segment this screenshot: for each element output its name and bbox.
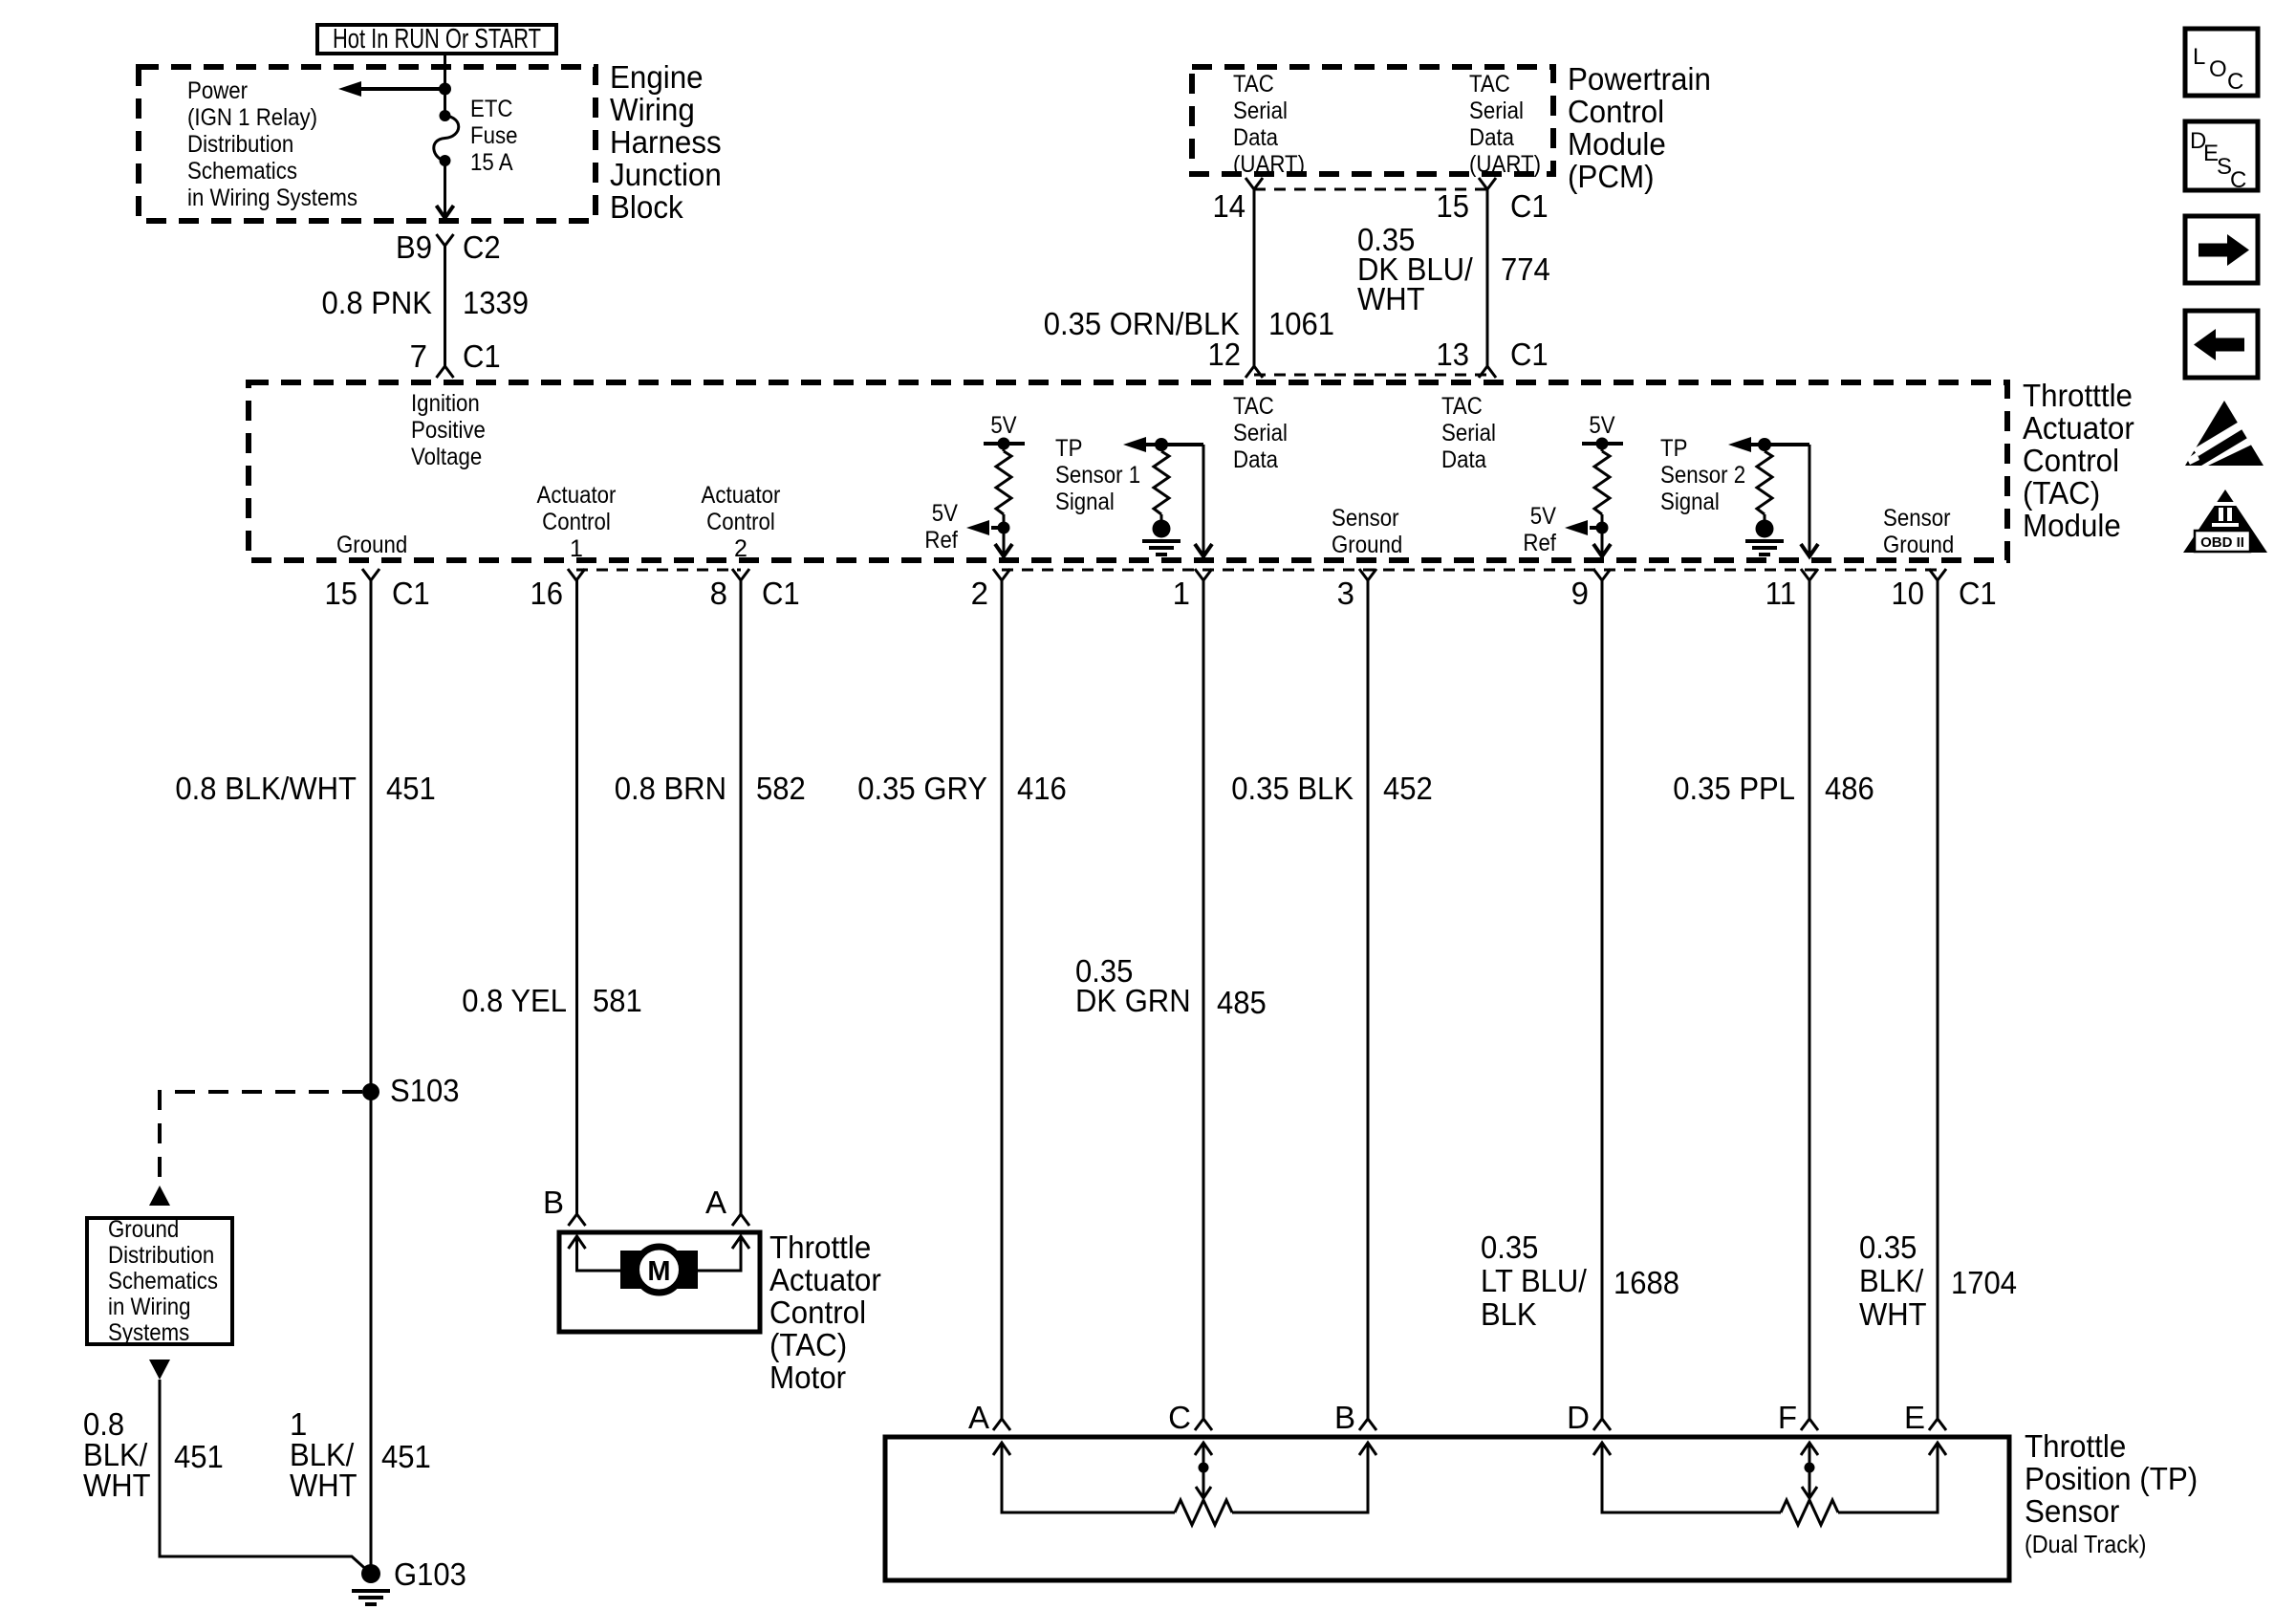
svg-text:Control: Control: [769, 1295, 866, 1330]
svg-text:451: 451: [381, 1439, 431, 1474]
fuse ETC 15 A: [434, 89, 459, 166]
pin label 10 / C1: [1892, 576, 1997, 611]
sensor ground label (pin 10): [1883, 505, 1954, 558]
svg-text:Actuator: Actuator: [769, 1262, 881, 1297]
svg-text:Engine: Engine: [610, 59, 704, 95]
icon arrow left: [2185, 311, 2258, 378]
TP sensor 1 signal label: [1055, 435, 1140, 515]
svg-text:C1: C1: [1959, 576, 1997, 611]
svg-text:TAC: TAC: [1233, 71, 1274, 98]
wire label 0.35 BLK 452: [1231, 771, 1433, 806]
engine wiring harness junction block (dashed box): [139, 67, 596, 221]
svg-text:WHT: WHT: [290, 1468, 357, 1503]
svg-text:in Wiring Systems: in Wiring Systems: [187, 185, 357, 211]
svg-text:in Wiring: in Wiring: [108, 1294, 191, 1320]
svg-text:TP: TP: [1055, 435, 1082, 462]
svg-text:Motor: Motor: [769, 1360, 846, 1395]
svg-text:WHT: WHT: [1357, 281, 1425, 316]
svg-text:Signal: Signal: [1055, 489, 1115, 515]
svg-text:Data: Data: [1469, 124, 1514, 151]
svg-text:Fuse: Fuse: [470, 122, 518, 149]
svg-text:WHT: WHT: [1859, 1296, 1927, 1332]
svg-text:Power: Power: [187, 77, 248, 104]
pin letter label F: [1778, 1400, 1797, 1435]
wire 0.8 PNK 1339: [444, 246, 446, 366]
svg-text:Data: Data: [1233, 124, 1278, 151]
svg-text:451: 451: [174, 1439, 224, 1474]
wire arrow to IGN 1 relay power: [338, 81, 445, 97]
svg-text:5V: 5V: [1530, 503, 1556, 530]
svg-text:Position (TP): Position (TP): [2025, 1461, 2198, 1496]
connector C2 pin B9: [437, 234, 454, 246]
svg-text:Control: Control: [1568, 94, 1664, 129]
svg-text:15: 15: [325, 576, 358, 611]
TP sensor 2 signal wire and pull-down resistor: [1728, 437, 1818, 556]
icon arrow right: [2185, 216, 2258, 283]
pin label 12: [1208, 337, 1242, 372]
svg-text:Serial: Serial: [1233, 98, 1288, 124]
svg-text:Sensor 1: Sensor 1: [1055, 462, 1140, 489]
connector C1 pin 10: [1929, 569, 1946, 580]
wire 0.35 DK BLU/WHT 774: [1486, 189, 1489, 366]
svg-text:TAC: TAC: [1441, 393, 1483, 420]
svg-text:Serial: Serial: [1233, 420, 1288, 446]
connector C1 pin 13 into TAC module: [1479, 366, 1496, 378]
throttle position TP sensor label: [2025, 1428, 2198, 1558]
svg-text:5V: 5V: [990, 412, 1016, 439]
pin label 16: [531, 576, 564, 611]
svg-text:TAC: TAC: [1469, 71, 1510, 98]
connector C1 line at TAC module bottom (pins 16-8): [576, 569, 741, 572]
connector pin D at TP sensor: [1593, 1419, 1611, 1430]
svg-text:(TAC): (TAC): [769, 1327, 847, 1362]
connector C1 pin 11: [1801, 569, 1818, 580]
connector pin F at TP sensor: [1801, 1419, 1818, 1430]
wire 0.8 YEL 581 (pin 16 to motor B): [575, 580, 578, 1214]
icon LOC: [2185, 29, 2258, 96]
svg-text:15: 15: [1437, 188, 1470, 224]
connector C1 pin 2: [993, 569, 1010, 580]
fuse value label: [470, 96, 518, 176]
ground label (TAC module): [336, 532, 407, 558]
connector pin A at TAC motor: [732, 1214, 749, 1226]
PCM TAC serial data label (right): [1469, 71, 1541, 178]
node: feed junction dot: [439, 83, 451, 96]
wire 0.8 BRN 582 (pin 8 to motor A): [740, 580, 743, 1214]
svg-text:M: M: [647, 1256, 670, 1287]
connector C1 pin 8: [732, 569, 749, 580]
svg-text:Ground: Ground: [1883, 532, 1954, 558]
svg-text:S103: S103: [390, 1073, 460, 1108]
svg-text:486: 486: [1825, 771, 1874, 806]
svg-text:Data: Data: [1233, 446, 1278, 473]
node S103 splice: [362, 1073, 460, 1108]
ground distribution note text: [108, 1216, 218, 1346]
svg-text:LT BLU/: LT BLU/: [1481, 1263, 1588, 1298]
svg-text:C1: C1: [1510, 188, 1549, 224]
connector C1 pin 12 into TAC module: [1245, 366, 1263, 378]
svg-text:416: 416: [1017, 771, 1067, 806]
svg-text:(PCM): (PCM): [1568, 159, 1655, 194]
svg-text:10: 10: [1892, 576, 1925, 611]
connector pin C at TP sensor: [1195, 1419, 1212, 1430]
svg-text:OBD II: OBD II: [2200, 534, 2244, 551]
connector C1 pin 9: [1593, 569, 1611, 580]
connector C1 pin 1: [1195, 569, 1212, 580]
svg-text:C: C: [2227, 69, 2243, 95]
svg-text:Ground: Ground: [336, 532, 407, 558]
svg-text:C2: C2: [463, 229, 501, 265]
svg-text:C1: C1: [762, 576, 800, 611]
svg-text:0.35: 0.35: [1859, 1229, 1917, 1265]
svg-text:Actuator: Actuator: [2023, 410, 2134, 446]
pin label 1: [1173, 576, 1190, 611]
TP sensor track 2 wiper (pin F): [1801, 1443, 1818, 1498]
connector C1 pin 16: [568, 569, 585, 580]
engine wiring harness junction block label: [610, 59, 722, 225]
PCM TAC serial data label (left): [1233, 71, 1305, 178]
arrow out of ground distribution note: [149, 1360, 170, 1380]
pin label B9 / C2: [396, 229, 501, 265]
wire 0.35 BLK 452 (pin 3 to TP sensor B): [1367, 580, 1370, 1419]
pin letter label D: [1567, 1400, 1590, 1435]
svg-text:(IGN 1 Relay): (IGN 1 Relay): [187, 104, 317, 131]
svg-text:0.8 YEL: 0.8 YEL: [462, 983, 567, 1018]
TP sensor 1 signal wire and pull-down resistor: [1123, 437, 1212, 556]
dashed wire to ground distribution: [160, 1092, 362, 1182]
svg-text:Ignition: Ignition: [411, 390, 480, 417]
svg-text:Actuator: Actuator: [702, 482, 781, 509]
throttle actuator control TAC motor box: [559, 1232, 760, 1332]
svg-text:Voltage: Voltage: [411, 444, 482, 470]
svg-text:12: 12: [1208, 337, 1242, 372]
svg-text:Module: Module: [1568, 126, 1666, 162]
icon DESC: [2185, 121, 2258, 193]
svg-text:(UART): (UART): [1233, 151, 1305, 178]
icon OBD II triangle: [2183, 490, 2267, 553]
svg-text:1061: 1061: [1268, 306, 1334, 341]
wire label 0.35 GRY 416: [857, 771, 1067, 806]
svg-text:Ground: Ground: [1332, 532, 1402, 558]
pin label A: [705, 1185, 726, 1220]
wire 0.35 PPL 486 (pin 11 to TP sensor F): [1809, 580, 1811, 1419]
svg-text:0.8 PNK: 0.8 PNK: [322, 285, 433, 320]
pin label 8 / C1: [710, 576, 800, 611]
connector C1 pin 15: [1479, 178, 1496, 189]
5V Ref label (sensor 1 side): [924, 500, 958, 554]
svg-text:E: E: [1904, 1400, 1925, 1435]
pin label B: [543, 1185, 564, 1220]
svg-text:Throttle: Throttle: [2025, 1428, 2126, 1464]
svg-text:Ref: Ref: [924, 527, 958, 554]
svg-text:1: 1: [570, 535, 583, 562]
wire fuse to junction block edge: [437, 161, 454, 218]
svg-text:Systems: Systems: [108, 1319, 189, 1346]
svg-text:(UART): (UART): [1469, 151, 1541, 178]
svg-text:0.8 BRN: 0.8 BRN: [615, 771, 726, 806]
svg-text:0.35 PPL: 0.35 PPL: [1673, 771, 1795, 806]
wire 0.35 DK GRN 485 (pin 1 to TP sensor C): [1202, 580, 1205, 1419]
svg-text:Serial: Serial: [1441, 420, 1496, 446]
svg-text:Powertrain: Powertrain: [1568, 61, 1711, 97]
wire label 0.8 BRN 582: [615, 771, 806, 806]
svg-text:Throtttle: Throtttle: [2023, 378, 2133, 413]
icon ESD warning triangle: [2185, 401, 2264, 466]
wire label 0.8 PNK 1339: [322, 285, 530, 320]
power distribution note: [187, 77, 357, 211]
hot feed label box: [317, 24, 556, 54]
TAC module label: [2023, 378, 2134, 543]
throttle position TP sensor box: [885, 1437, 2009, 1580]
wire labels 1 BLK/WHT 451: [290, 1406, 431, 1503]
svg-text:Control: Control: [2023, 443, 2119, 478]
connector pin B at TAC motor: [569, 1214, 586, 1226]
wire 0.35 BLK/WHT 1704 (pin 10 to TP sensor E): [1937, 580, 1939, 1419]
svg-text:G103: G103: [394, 1556, 466, 1592]
pin letter label C: [1168, 1400, 1191, 1435]
wire label 0.35 LT BLU/BLK 1688: [1481, 1229, 1679, 1332]
wire 0.35 ORN/BLK 1061: [1253, 189, 1256, 366]
sensor ground label (pin 3): [1332, 505, 1402, 558]
motor M1 windings and brushes: [569, 1236, 750, 1293]
TP sensor 2 signal label: [1660, 435, 1745, 515]
svg-text:A: A: [705, 1185, 726, 1220]
wire labels 0.8 BLK/WHT 451: [83, 1406, 224, 1503]
svg-text:C1: C1: [392, 576, 430, 611]
svg-text:5V: 5V: [932, 500, 958, 527]
svg-text:Sensor: Sensor: [1332, 505, 1399, 532]
svg-text:B: B: [1334, 1400, 1355, 1435]
pin label 13 / C1: [1437, 337, 1549, 372]
throttle actuator control TAC module (dashed box): [249, 382, 2007, 560]
svg-text:A: A: [968, 1400, 989, 1435]
svg-text:C1: C1: [1510, 337, 1549, 372]
TAC serial data label (module left): [1233, 393, 1288, 473]
svg-text:0.35: 0.35: [1481, 1229, 1538, 1265]
connector C1 line at PCM: [1254, 188, 1487, 191]
svg-text:C: C: [2230, 167, 2246, 193]
svg-text:Sensor: Sensor: [2025, 1493, 2119, 1529]
wire 0.8 BLK/WHT 451 to G103: [160, 1380, 371, 1574]
pin label 7 / C1: [410, 338, 501, 374]
svg-text:Signal: Signal: [1660, 489, 1720, 515]
svg-text:DK GRN: DK GRN: [1075, 983, 1191, 1018]
svg-text:11: 11: [1765, 576, 1796, 611]
svg-text:Schematics: Schematics: [187, 158, 297, 185]
svg-text:Hot In RUN Or START: Hot In RUN Or START: [333, 24, 541, 54]
svg-text:(TAC): (TAC): [2023, 475, 2100, 511]
connector C1 pin 15: [362, 569, 379, 580]
svg-text:Ground: Ground: [108, 1216, 179, 1243]
svg-text:F: F: [1778, 1400, 1797, 1435]
ground distribution note box: [87, 1218, 232, 1344]
connector pin A at TP sensor: [993, 1419, 1010, 1430]
svg-text:1704: 1704: [1951, 1265, 2017, 1300]
svg-text:B: B: [543, 1185, 564, 1220]
svg-text:774: 774: [1501, 251, 1550, 287]
svg-text:B9: B9: [396, 229, 432, 265]
connector C1 line at TAC module bottom (pins 2-10): [1002, 569, 1938, 572]
wire 0.8 BLK/WHT 451 (pin 15 to G103): [370, 580, 373, 1572]
svg-text:0.8 BLK/WHT: 0.8 BLK/WHT: [175, 771, 357, 806]
resistor 5V pull-up (sensor 2 side): [1565, 412, 1623, 556]
svg-text:TP: TP: [1660, 435, 1687, 462]
TAC serial data label (module right): [1441, 393, 1496, 473]
svg-text:581: 581: [593, 983, 642, 1018]
powertrain control module label: [1568, 61, 1711, 194]
svg-text:Actuator: Actuator: [537, 482, 617, 509]
svg-text:16: 16: [531, 576, 564, 611]
svg-text:BLK: BLK: [1481, 1296, 1537, 1332]
powertrain control module PCM (dashed box): [1192, 67, 1553, 174]
wire label 0.35 DK GRN 485: [1075, 953, 1267, 1020]
svg-text:WHT: WHT: [83, 1468, 151, 1503]
svg-text:TAC: TAC: [1233, 393, 1274, 420]
svg-text:14: 14: [1213, 188, 1246, 224]
svg-text:1688: 1688: [1614, 1265, 1679, 1300]
wire label 0.35 ORN/BLK 1061: [1044, 306, 1334, 341]
connector C1 pin 3: [1359, 569, 1376, 580]
pin label 15 / C1: [1437, 188, 1549, 224]
svg-text:ETC: ETC: [470, 96, 513, 122]
svg-text:Distribution: Distribution: [108, 1242, 214, 1269]
TP sensor track 2 (D-F-E potentiometer): [1593, 1443, 1946, 1525]
svg-text:Distribution: Distribution: [187, 131, 293, 158]
svg-text:Junction: Junction: [610, 157, 722, 192]
svg-text:2: 2: [971, 576, 988, 611]
connector C1 pin 7 into TAC module: [437, 366, 454, 378]
resistor 5V pull-up (sensor 1 side): [966, 412, 1025, 556]
connector C1 line at TAC module top: [1254, 374, 1487, 377]
svg-text:485: 485: [1217, 985, 1267, 1020]
svg-text:Ref: Ref: [1523, 530, 1556, 556]
svg-text:O: O: [2209, 56, 2227, 82]
svg-text:Control: Control: [542, 509, 611, 535]
svg-text:452: 452: [1383, 771, 1433, 806]
pin label 14: [1213, 188, 1246, 224]
svg-text:BLK/: BLK/: [1859, 1263, 1924, 1298]
svg-text:0.35 BLK: 0.35 BLK: [1231, 771, 1354, 806]
svg-text:Control: Control: [706, 509, 775, 535]
svg-text:582: 582: [756, 771, 806, 806]
svg-text:5V: 5V: [1589, 412, 1614, 439]
svg-text:Positive: Positive: [411, 417, 486, 444]
pin letter label A: [968, 1400, 989, 1435]
svg-text:451: 451: [386, 771, 436, 806]
pin letter label E: [1904, 1400, 1925, 1435]
TP sensor track 1 wiper (pin C): [1195, 1443, 1212, 1498]
svg-text:(Dual Track): (Dual Track): [2025, 1530, 2146, 1558]
wire 0.35 LT BLU/BLK 1688 (pin 9 to TP sensor D): [1601, 580, 1604, 1419]
pin label 9: [1571, 576, 1589, 611]
svg-text:L: L: [2193, 44, 2205, 70]
wire label 0.35 PPL 486: [1673, 771, 1874, 806]
wire from hot feed into junction block: [444, 54, 446, 89]
svg-text:Schematics: Schematics: [108, 1268, 218, 1295]
svg-text:Module: Module: [2023, 508, 2121, 543]
svg-text:D: D: [1567, 1400, 1590, 1435]
pin letter label B: [1334, 1400, 1355, 1435]
wire label 0.35 DK BLU/WHT: [1357, 222, 1550, 316]
svg-text:C1: C1: [463, 338, 501, 374]
svg-text:2: 2: [734, 535, 747, 562]
pin label 2: [971, 576, 988, 611]
actuator control 1 label: [537, 482, 617, 562]
svg-text:C: C: [1168, 1400, 1191, 1435]
wire label 0.35 BLK/WHT 1704: [1859, 1229, 2017, 1332]
svg-text:13: 13: [1437, 337, 1470, 372]
svg-text:Sensor: Sensor: [1883, 505, 1951, 532]
5V Ref label (sensor 2 side): [1523, 503, 1556, 556]
wire 0.35 GRY 416 (pin 2 to TP sensor A): [1001, 580, 1004, 1419]
wire label 0.8 BLK/WHT 451: [175, 771, 435, 806]
arrow into ground distribution note: [149, 1186, 170, 1206]
svg-text:Block: Block: [610, 189, 683, 225]
svg-text:Throttle: Throttle: [769, 1229, 871, 1265]
svg-text:Sensor 2: Sensor 2: [1660, 462, 1745, 489]
svg-text:Harness: Harness: [610, 124, 722, 160]
actuator control 2 label: [702, 482, 781, 562]
pin label 3: [1337, 576, 1354, 611]
throttle actuator control TAC motor label: [769, 1229, 881, 1395]
svg-text:3: 3: [1337, 576, 1354, 611]
TP sensor track 1 (A-C-B potentiometer): [993, 1443, 1376, 1525]
connector pin E at TP sensor: [1929, 1419, 1946, 1430]
ignition positive voltage label: [411, 390, 486, 470]
pin label 11: [1765, 576, 1796, 611]
pin label 15 / C1: [325, 576, 430, 611]
svg-text:9: 9: [1571, 576, 1589, 611]
svg-text:0.35 GRY: 0.35 GRY: [857, 771, 987, 806]
svg-text:Data: Data: [1441, 446, 1486, 473]
connector pin B at TP sensor: [1359, 1419, 1376, 1430]
svg-text:Wiring: Wiring: [610, 92, 695, 127]
svg-text:Serial: Serial: [1469, 98, 1524, 124]
svg-text:7: 7: [410, 338, 427, 374]
ground G103: [352, 1556, 466, 1604]
svg-text:1: 1: [1173, 576, 1190, 611]
svg-text:1339: 1339: [463, 285, 529, 320]
connector C1 pin 14: [1245, 178, 1263, 189]
wire label 0.8 YEL 581: [462, 983, 642, 1018]
svg-text:8: 8: [710, 576, 727, 611]
svg-text:15 A: 15 A: [470, 149, 513, 176]
